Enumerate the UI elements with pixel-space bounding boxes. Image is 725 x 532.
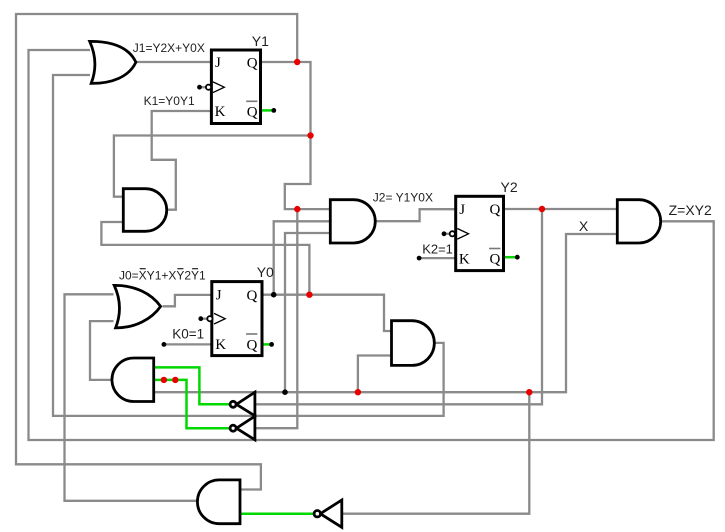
svg-text:J: J bbox=[459, 202, 465, 218]
svg-text:Y0: Y0 bbox=[257, 264, 274, 280]
svg-text:Q: Q bbox=[490, 202, 501, 218]
svg-text:K: K bbox=[459, 251, 470, 267]
svg-text:Q: Q bbox=[490, 252, 501, 268]
svg-text:Y2: Y2 bbox=[501, 179, 518, 195]
svg-text:K: K bbox=[215, 104, 226, 120]
svg-text:J1=Y2X+Y0X: J1=Y2X+Y0X bbox=[133, 41, 205, 55]
svg-text:J: J bbox=[216, 287, 222, 303]
svg-text:Q: Q bbox=[247, 105, 258, 121]
svg-text:K: K bbox=[215, 337, 226, 353]
svg-text:Q: Q bbox=[247, 55, 258, 71]
svg-text:Y1: Y1 bbox=[252, 33, 269, 49]
svg-text:Z=XY2: Z=XY2 bbox=[669, 202, 712, 218]
svg-text:J: J bbox=[215, 55, 221, 71]
svg-text:Q: Q bbox=[247, 337, 258, 353]
svg-text:K0=1: K0=1 bbox=[172, 327, 204, 342]
svg-text:X: X bbox=[579, 218, 589, 234]
svg-text:J0=XY1+XY2Y1: J0=XY1+XY2Y1 bbox=[119, 269, 206, 283]
svg-text:Q: Q bbox=[247, 288, 258, 304]
svg-text:J2= Y1Y0X: J2= Y1Y0X bbox=[373, 190, 433, 204]
svg-text:K1=Y0Y1: K1=Y0Y1 bbox=[144, 94, 195, 108]
svg-text:K2=1: K2=1 bbox=[422, 241, 453, 256]
